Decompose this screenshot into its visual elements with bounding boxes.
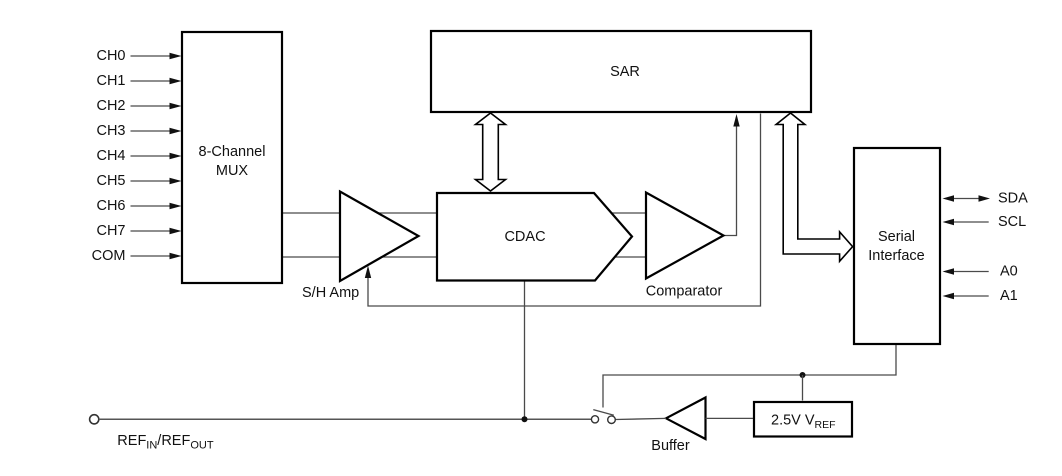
svg-text:S/H Amp: S/H Amp	[302, 285, 359, 301]
Serial Interface block	[854, 148, 940, 344]
switch arm	[593, 410, 614, 416]
svg-text:Interface: Interface	[868, 248, 924, 264]
block arrow SAR-Serial Interface bent	[776, 113, 853, 261]
svg-text:Comparator: Comparator	[646, 284, 723, 300]
wire comparator output to SAR	[724, 114, 740, 236]
input COM	[92, 248, 182, 264]
svg-text:SAR: SAR	[610, 64, 640, 80]
pin SDA bidirectional	[943, 191, 1029, 207]
svg-text:Serial: Serial	[878, 229, 915, 245]
pin SCL	[943, 214, 1027, 230]
input CH1	[96, 73, 181, 89]
wire branch to VREF box	[802, 375, 804, 401]
input CH5	[96, 173, 181, 189]
wire buffer to switch	[615, 418, 666, 419]
svg-text:CH3: CH3	[96, 123, 125, 139]
svg-text:A1: A1	[1000, 288, 1018, 304]
input CH4	[96, 148, 181, 164]
input CH2	[96, 98, 181, 114]
svg-text:CH0: CH0	[96, 48, 125, 64]
input CH0	[96, 48, 181, 64]
pin A1	[943, 288, 1018, 304]
2.5V VREF block	[754, 402, 852, 437]
input CH7	[96, 223, 181, 239]
wire MUX to CDAC lower	[283, 256, 655, 258]
switch left contact	[591, 416, 598, 423]
input CH3	[96, 123, 181, 139]
wire VREF to buffer	[706, 417, 754, 419]
svg-text:MUX: MUX	[216, 163, 249, 179]
CDAC block	[437, 193, 632, 281]
junction node at VREF branch	[800, 372, 806, 378]
wire MUX to CDAC upper	[283, 212, 655, 214]
REF terminal circle	[90, 415, 99, 424]
svg-text:CH4: CH4	[96, 148, 125, 164]
svg-text:8-Channel: 8-Channel	[199, 144, 266, 160]
switch right contact	[608, 416, 616, 424]
wire SAR control to S/H amp	[365, 114, 761, 307]
wire REF line	[99, 418, 592, 420]
svg-text:COM: COM	[92, 248, 126, 264]
S/H amp triangle	[302, 192, 419, 302]
svg-text:SDA: SDA	[998, 191, 1028, 207]
svg-text:CH6: CH6	[96, 198, 125, 214]
svg-text:CDAC: CDAC	[504, 229, 545, 245]
pin A0	[943, 264, 1018, 280]
junction node on REF line	[522, 416, 528, 422]
SAR block	[431, 31, 811, 112]
comparator triangle	[646, 193, 724, 300]
input CH6	[96, 198, 181, 214]
svg-text:SCL: SCL	[998, 214, 1026, 230]
svg-text:CH1: CH1	[96, 73, 125, 89]
svg-text:A0: A0	[1000, 264, 1018, 280]
wire Serial Interface to switch control	[603, 345, 896, 408]
block arrow SAR-CDAC bidirectional	[476, 113, 506, 191]
svg-text:CH5: CH5	[96, 173, 125, 189]
8-Channel MUX block	[182, 32, 282, 283]
svg-text:CH7: CH7	[96, 223, 125, 239]
wire CDAC bottom to reference line	[524, 281, 526, 419]
svg-text:CH2: CH2	[96, 98, 125, 114]
buffer amp triangle	[651, 398, 705, 455]
svg-text:Buffer: Buffer	[651, 438, 690, 454]
svg-text:REFIN/REFOUT: REFIN/REFOUT	[117, 433, 214, 452]
